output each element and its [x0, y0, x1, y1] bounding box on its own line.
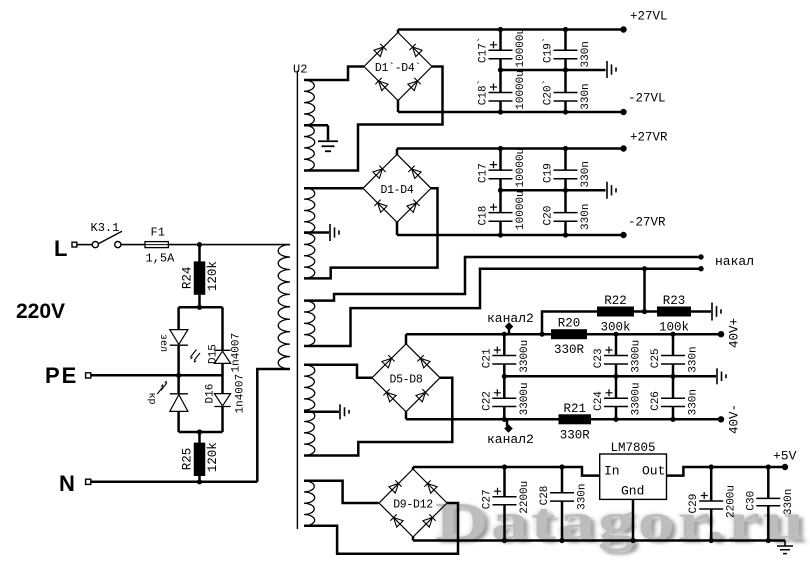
svg-text:C22: C22 [481, 391, 493, 411]
wire N to primary bottom [257, 369, 290, 482]
wire S4 top to bridge [304, 365, 372, 378]
svg-text:10000u: 10000u [515, 28, 527, 68]
LED "кр" (red) D upward [177, 375, 180, 394]
node 0V rail sec2 [501, 189, 606, 192]
junction [630, 538, 635, 543]
junction [197, 429, 202, 434]
wire R22/R23 node to nakal- [643, 269, 646, 312]
wire [634, 310, 657, 313]
wire 40V- rail [405, 412, 408, 420]
svg-text:In: In [604, 464, 620, 479]
svg-text:330n: 330n [580, 83, 592, 109]
svg-text:330n: 330n [580, 204, 592, 230]
resistor R24 [198, 245, 201, 262]
svg-text:3300u: 3300u [631, 340, 643, 373]
capacitor C28 [561, 467, 564, 493]
svg-text:C24: C24 [593, 391, 605, 411]
junction [563, 188, 568, 193]
svg-text:D5-D8: D5-D8 [389, 373, 422, 386]
svg-text:C29: C29 [688, 494, 700, 514]
svg-text:330n: 330n [783, 489, 795, 515]
terminal -27VL [620, 109, 626, 115]
svg-text:L: L [54, 236, 67, 261]
junction [670, 332, 675, 337]
ground sec1 [606, 61, 608, 78]
wire S5 top to bridge [304, 481, 379, 503]
wire S3 top to nakal+ [304, 257, 699, 301]
ground (earth) [327, 125, 330, 140]
wire -27VR rail [396, 221, 399, 235]
svg-text:Gnd: Gnd [621, 484, 644, 499]
switch K3.1 [92, 242, 98, 248]
wire [177, 345, 180, 375]
junction [670, 374, 675, 379]
capacitor C18` [499, 70, 502, 93]
junction [502, 374, 507, 379]
svg-text:330R: 330R [554, 343, 585, 357]
junction [559, 464, 564, 469]
wire S2 centre tap + ground [304, 231, 329, 234]
diode D16 1n4007 (points down) [221, 363, 224, 393]
junction [197, 479, 202, 484]
capacitor C22 [503, 376, 506, 398]
svg-text:C30: C30 [745, 491, 757, 511]
svg-text:R22: R22 [604, 294, 627, 308]
junction [613, 417, 618, 422]
capacitor C18 [499, 190, 502, 212]
svg-text:330n: 330n [577, 483, 589, 509]
junction [498, 146, 503, 151]
svg-text:330n: 330n [580, 161, 592, 187]
svg-text:10000u: 10000u [515, 190, 527, 230]
terminal +27VR [620, 145, 626, 151]
wire [168, 244, 290, 246]
svg-text:C17`: C17` [477, 37, 490, 63]
wire 40V+ rail [405, 334, 408, 345]
svg-text:C25: C25 [650, 348, 662, 368]
capacitor C24 [615, 376, 618, 398]
bridge rectifier D9-D12 [379, 469, 447, 537]
terminal nakal- [698, 266, 703, 271]
svg-text:2200u: 2200u [726, 485, 738, 518]
svg-text:D9-D12: D9-D12 [393, 499, 433, 512]
svg-text:3300u: 3300u [519, 382, 531, 415]
fuse F1 [145, 242, 168, 248]
svg-text:40V-: 40V- [728, 404, 742, 434]
junction [498, 188, 503, 193]
terminal PE [86, 373, 91, 378]
svg-text:C28: C28 [539, 486, 551, 506]
junction [502, 332, 507, 337]
svg-text:D15: D15 [208, 344, 220, 364]
wire bridge AC2 to S5 bottom [304, 503, 458, 554]
svg-text:F1: F1 [151, 226, 165, 240]
terminal +5V [782, 464, 788, 470]
resistor R22 300k [597, 307, 634, 317]
svg-text:D16: D16 [205, 384, 217, 404]
svg-text:канал2: канал2 [487, 432, 534, 447]
wire gnd rail bottom [412, 536, 415, 541]
svg-text:10000u: 10000u [515, 70, 527, 110]
wire S1 top to bridge [304, 67, 364, 81]
svg-text:40V+: 40V+ [728, 318, 742, 348]
wire R22 tap [542, 312, 597, 335]
junction [670, 417, 675, 422]
svg-text:R23: R23 [663, 294, 686, 308]
svg-text:R21: R21 [563, 402, 586, 416]
terminal 40V+ [718, 331, 724, 337]
wire bridge AC2 to S1 bottom [304, 67, 443, 171]
transformer U2 core [296, 71, 298, 530]
terminal L [72, 242, 77, 247]
capacitor C29 [710, 467, 713, 501]
bridge rectifier D5-D8 [372, 344, 440, 412]
wire bridge AC2 to S4 bottom [304, 378, 452, 456]
junction [563, 27, 568, 32]
svg-text:C18: C18 [478, 206, 490, 226]
capacitor C17 [499, 149, 502, 171]
svg-text:C17: C17 [478, 163, 490, 183]
wire bottom of LED block [179, 431, 223, 434]
svg-text:Out: Out [642, 464, 665, 479]
ground bottom right [784, 541, 786, 547]
svg-text:10000u: 10000u [515, 148, 527, 188]
regulator LM7805 [600, 454, 667, 499]
junction [709, 538, 714, 543]
junction [563, 109, 568, 114]
capacitor C17` [499, 30, 502, 51]
wire [77, 244, 92, 246]
resistor R21 330R [559, 414, 592, 424]
svg-text:-27VR: -27VR [628, 216, 666, 230]
resistor R23 100k [657, 307, 691, 317]
svg-text:C21: C21 [481, 348, 493, 368]
svg-text:330n: 330n [580, 41, 592, 67]
svg-text:330n: 330n [688, 346, 700, 372]
svg-text:C18`: C18` [477, 79, 490, 105]
capacitor C27 [503, 467, 506, 497]
svg-text:накал: накал [715, 254, 754, 269]
svg-text:U2: U2 [293, 63, 307, 77]
wire [177, 307, 180, 329]
svg-text:1n4007: 1n4007 [231, 333, 243, 373]
svg-text:PE: PE [45, 363, 78, 388]
svg-text:C23: C23 [593, 348, 605, 368]
svg-text:330n: 330n [688, 389, 700, 415]
capacitor C23 [615, 334, 618, 355]
svg-text:300k: 300k [600, 321, 630, 335]
wire S3 bottom to nakal- [304, 269, 699, 346]
junction [563, 67, 568, 72]
svg-text:C20`: C20` [542, 79, 555, 105]
ground sec3 [716, 368, 718, 384]
svg-text:+5V: +5V [773, 449, 797, 464]
junction [766, 538, 771, 543]
svg-text:R25: R25 [181, 448, 195, 471]
svg-text:C19`: C19` [542, 37, 555, 63]
capacitor C20 [564, 190, 567, 212]
svg-text:R20: R20 [558, 317, 581, 331]
capacitor C19` [564, 30, 567, 51]
terminal +27VL [620, 26, 626, 32]
junction [613, 332, 618, 337]
junction [642, 309, 647, 314]
node 0V rail sec1 [501, 69, 606, 72]
wire +27VR rail [396, 149, 399, 156]
svg-text:R24: R24 [181, 267, 195, 290]
terminal nakal+ [698, 254, 703, 259]
junction [539, 332, 544, 337]
wire Out pin [667, 467, 786, 476]
wire bridge AC2 to S2 bottom [304, 188, 438, 278]
secondary winding S5 [304, 481, 315, 526]
junction [642, 266, 647, 271]
junction [498, 232, 503, 237]
wire Gnd pin [632, 499, 635, 540]
junction (R24 tap) [197, 242, 202, 247]
svg-text:120k: 120k [206, 442, 220, 472]
svg-text:120k: 120k [206, 261, 220, 291]
svg-text:C27: C27 [482, 489, 494, 509]
junction [766, 464, 771, 469]
secondary winding S2 [304, 188, 315, 279]
svg-text:3300u: 3300u [631, 382, 643, 415]
diode D15 1n4007 (points up) [221, 307, 224, 350]
junction [563, 232, 568, 237]
junction [176, 373, 181, 378]
wire S2 top to bridge [304, 187, 363, 190]
wire +rail to regulator [412, 467, 415, 470]
transformer primary winding [278, 245, 290, 369]
svg-text:+27VR: +27VR [630, 131, 668, 145]
svg-text:100k: 100k [659, 321, 689, 335]
junction [498, 27, 503, 32]
svg-text:220V: 220V [16, 300, 65, 323]
svg-text:зел: зел [157, 334, 168, 352]
node 0V rail sec3 [504, 375, 716, 378]
svg-text:C26: C26 [650, 391, 662, 411]
bridge rectifier D1-D4 [363, 154, 431, 222]
wire [179, 306, 223, 309]
junction [197, 305, 202, 310]
capacitor C19 [564, 149, 567, 171]
bridge rectifier D1`-D4` [364, 33, 432, 101]
svg-text:C20: C20 [543, 206, 555, 226]
terminal N + N wire [86, 479, 91, 484]
wire +27VL rail [398, 28, 624, 31]
resistor R20 330R [551, 329, 587, 339]
ground R23 [691, 310, 711, 313]
junction [613, 374, 618, 379]
svg-text:+27VL: +27VL [630, 10, 668, 24]
junction [563, 146, 568, 151]
junction [498, 109, 503, 114]
node kanal2 top [508, 327, 511, 334]
capacitor C20` [564, 70, 567, 93]
secondary winding S1 [304, 80, 315, 171]
svg-text:кр: кр [146, 393, 157, 405]
capacitor C25 [672, 334, 675, 355]
svg-text:N: N [59, 471, 75, 496]
secondary winding S3 (filament) [304, 301, 315, 346]
node kanal2 bottom [506, 419, 509, 426]
wire S1 centre tap [304, 124, 328, 127]
svg-text:LM7805: LM7805 [610, 441, 655, 455]
wire [121, 244, 145, 246]
capacitor C30 [767, 467, 770, 498]
svg-text:1,5A: 1,5A [146, 252, 176, 266]
junction [559, 538, 564, 543]
resistor R25 [198, 432, 201, 443]
junction [709, 464, 714, 469]
terminal 40V- [718, 416, 724, 422]
wire S4 centre tap + ground [304, 411, 339, 414]
ground sec2 [606, 182, 608, 199]
svg-text:D1`-D4`: D1`-D4` [375, 62, 421, 75]
svg-text:канал2: канал2 [487, 311, 534, 326]
terminal -27VR [620, 232, 626, 238]
junction [502, 538, 507, 543]
svg-text:3300u: 3300u [519, 340, 531, 373]
svg-text:2200u: 2200u [519, 481, 531, 514]
capacitor C21 [503, 334, 506, 355]
svg-text:-27VL: -27VL [628, 92, 666, 106]
junction [502, 417, 507, 422]
svg-text:330R: 330R [560, 428, 591, 442]
svg-text:C19: C19 [543, 163, 555, 183]
capacitor C26 [672, 376, 675, 398]
LED "зел" (green) D downward [170, 330, 188, 345]
svg-text:D1-D4: D1-D4 [380, 184, 413, 197]
secondary winding S4 [304, 365, 315, 456]
junction [498, 67, 503, 72]
svg-text:K3.1: K3.1 [91, 221, 120, 235]
node PE rail [91, 374, 223, 377]
junction [502, 464, 507, 469]
svg-text:1n4007: 1n4007 [235, 374, 247, 414]
wire -27VL rail [397, 100, 400, 113]
